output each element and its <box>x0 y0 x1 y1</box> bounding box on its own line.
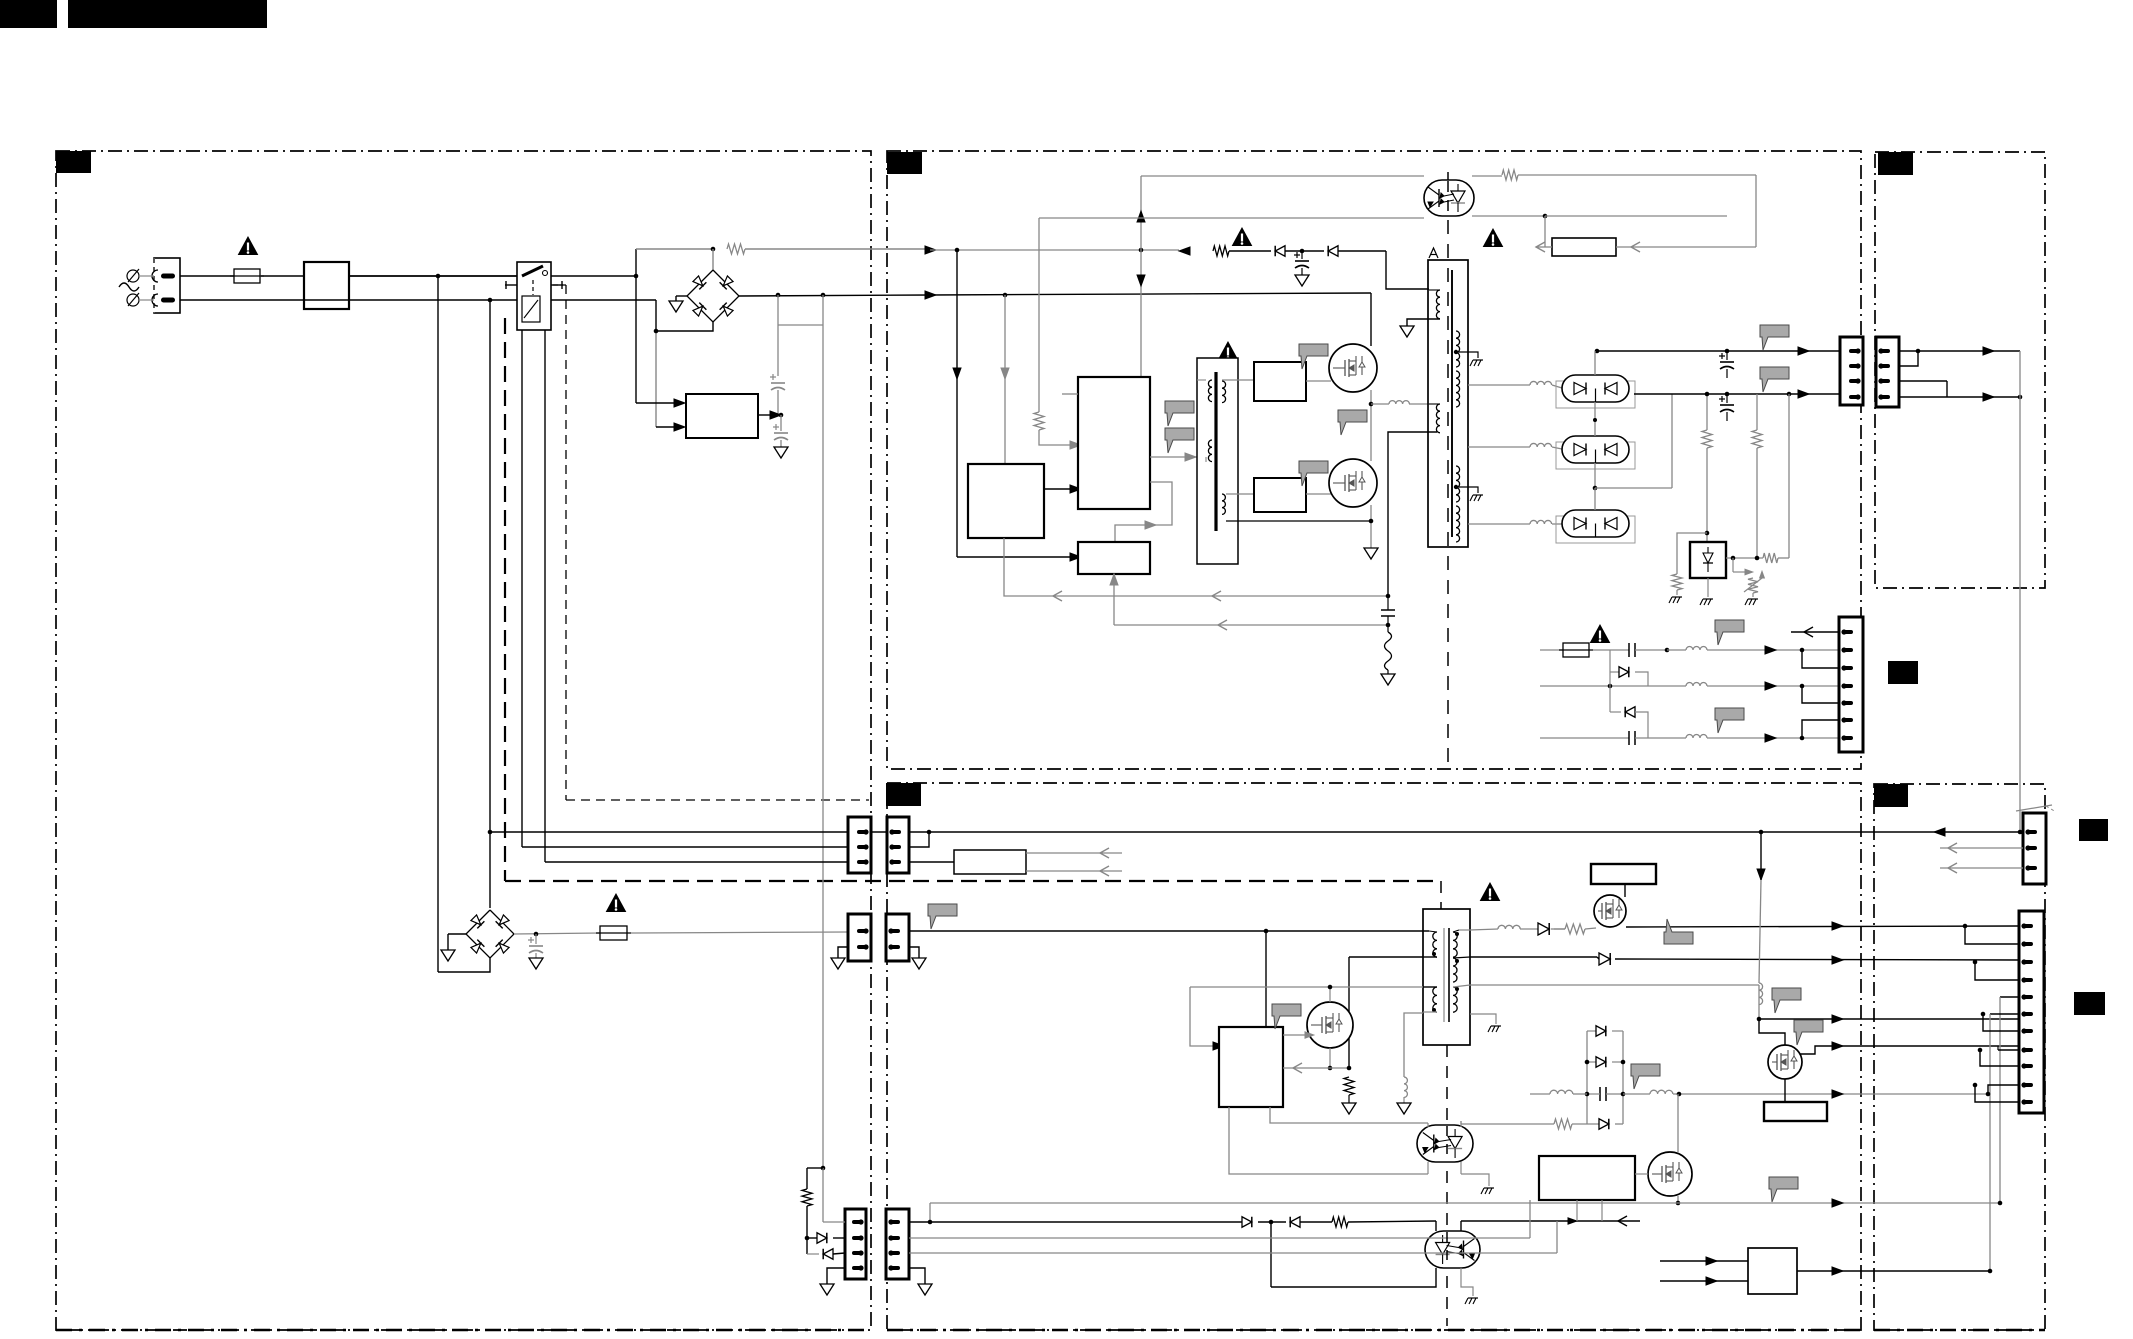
wire C out 1 <box>1899 350 2020 352</box>
junction AC N to BR2 feed <box>488 298 493 303</box>
wire label box out 2 <box>1026 870 1122 872</box>
junction D505/D506 <box>1269 1220 1274 1225</box>
diode D207 <box>1610 711 1621 713</box>
warning triangle fuse F102 <box>607 894 626 912</box>
capacitor C502 <box>1599 1087 1601 1101</box>
diode D105 <box>807 1237 817 1239</box>
inductor L501 <box>1498 925 1520 929</box>
wire C out 2 <box>1899 380 1947 382</box>
driver module IC205 <box>1254 478 1306 512</box>
main transformer T201 <box>1428 260 1468 547</box>
junction D206 <box>1608 684 1613 689</box>
connector CN601 (B out) <box>1839 617 1863 752</box>
wire gray return y625 <box>1114 624 1390 626</box>
wire AC line L <box>180 275 234 277</box>
wire gray return y597 <box>1004 538 1388 596</box>
wire main +B rail <box>1530 1093 1550 1095</box>
wire standby AC rail down to D section <box>822 325 824 1168</box>
junction aux out <box>1757 1017 1762 1022</box>
capacitor C204 <box>1726 394 1728 403</box>
resistor R207 <box>1756 394 1758 430</box>
wire p10 from +B <box>1988 1085 2019 1094</box>
white box soft-start <box>1552 238 1616 256</box>
wire CN501 pin3 to label box <box>909 861 954 863</box>
wire to T1 primary top <box>1386 251 1429 289</box>
wire T2 secondary 2 <box>1453 957 1470 958</box>
flag Q1 <box>1299 344 1328 369</box>
connector label CN602 <box>1888 661 1918 684</box>
snubber branch <box>1388 432 1437 596</box>
section border: output header block C <box>1875 152 2045 588</box>
page title block <box>0 0 57 28</box>
fuse F102 <box>600 926 627 940</box>
wire PC501 collector out <box>1460 1121 1462 1124</box>
isolation dash overlay PC501 <box>1446 1126 1448 1161</box>
section border: standby converter block D <box>887 783 1861 1330</box>
wire PC501 pins <box>1427 1123 1429 1127</box>
wire IC sense <box>1283 1067 1349 1069</box>
wire DC bus into B <box>925 291 936 299</box>
diode D502 <box>1572 1123 1599 1125</box>
P-channel FET Q502 <box>1594 895 1626 927</box>
resistor R101 inrush <box>727 244 745 254</box>
junction relay out <box>634 274 639 279</box>
wire +B2 rail y1203 <box>930 1202 2000 1204</box>
MOSFET Q201 <box>1306 380 1331 382</box>
inductor L502 <box>1759 983 1763 1005</box>
wire IC501 fb1 <box>1270 1107 1428 1123</box>
wire C rail down to E <box>2019 351 2021 832</box>
junction DC bus x1005 <box>1003 293 1008 298</box>
wire to soft start box <box>1544 216 1546 247</box>
wire aux out to CN <box>1759 1018 2019 1020</box>
capacitor C205 <box>1628 643 1630 657</box>
wire y1203 jog to CN503 <box>929 1203 931 1222</box>
wire Q503 to label <box>1784 1079 1786 1102</box>
page heading bar <box>68 0 267 28</box>
optocoupler PC501 <box>1417 1125 1473 1162</box>
junction snubber y625 <box>1386 623 1391 628</box>
wire PC502 emitter <box>1461 1268 1473 1296</box>
ground Q2 <box>1364 548 1378 559</box>
wire aux down x1759 <box>1758 985 1760 1019</box>
connector CN503 (D side lower) <box>886 1209 909 1279</box>
junction snubber y596 <box>1386 594 1391 599</box>
connector CN106 (A side mid) <box>848 914 871 961</box>
white label box Q502 <box>1591 864 1656 884</box>
bridge rectifier BR1 <box>687 270 739 322</box>
wire bias rail y176 <box>1141 175 1424 177</box>
timing IC203 <box>1078 542 1150 574</box>
section label C <box>1878 152 1913 175</box>
arrow -B2 <box>1765 682 1776 690</box>
wire secondary 1 <box>1468 384 1530 386</box>
junction aux supply out <box>779 413 784 418</box>
white label box Q503 <box>1764 1102 1827 1121</box>
wire label box out 1 <box>1026 852 1122 854</box>
wire aux to IC vcc <box>1190 987 1215 1046</box>
relay RY101 <box>517 262 551 330</box>
connector CN304 (E main) <box>2019 911 2044 1113</box>
ground snubber <box>1387 670 1389 674</box>
connector CN303 (E top) <box>2023 813 2046 884</box>
wire IC drive Q5 <box>1283 1034 1307 1036</box>
connector CN202 (B top out) <box>1840 337 1863 405</box>
junction VCC feed <box>1264 929 1269 934</box>
output rectifier cluster <box>1586 1031 1588 1124</box>
wire -B rail 2 <box>1540 685 1686 687</box>
wire PC502 collector <box>1460 1221 1462 1231</box>
wire -B rail 3 <box>1540 737 1629 739</box>
wire soft-start right arrow <box>1616 246 1756 248</box>
flag PWM out1 <box>1165 401 1194 426</box>
wire drive to Q1 driver <box>1222 379 1254 381</box>
wire aux input 1 <box>636 402 674 404</box>
wire Q5 drain <box>1329 987 1331 1002</box>
wire BR2 DC out <box>514 933 600 934</box>
inductor L203 <box>1686 683 1707 686</box>
PWM controller IC202 <box>1078 377 1150 509</box>
wire soft-start left arrow <box>1536 246 1552 248</box>
ground stub CN502 <box>909 947 919 958</box>
ground stub CN503 <box>909 1268 925 1284</box>
diode D206 <box>1610 671 1619 673</box>
diode D202 <box>1328 246 1338 257</box>
ground IC206 <box>1707 578 1709 597</box>
optocoupler PC201 <box>1424 180 1474 216</box>
wire PC501 emitter gnd <box>1461 1174 1489 1186</box>
flag standby in <box>928 904 957 929</box>
wire PC201 cathode <box>1472 215 1545 217</box>
shunt regulator IC206 <box>1690 542 1726 578</box>
page bottom border emphasis <box>56 1329 871 1332</box>
dual diode D204 <box>1556 442 1635 469</box>
wire snubber bus <box>1179 247 1190 255</box>
resistor R208 <box>1677 533 1707 574</box>
diode D501 <box>1538 923 1549 935</box>
capacitor C201 <box>1301 251 1303 259</box>
line filter LF101 <box>304 262 349 309</box>
sub regulator IC502 <box>1539 1156 1635 1200</box>
fuse F201 <box>1563 643 1589 657</box>
section label E <box>1874 784 1908 807</box>
wire LED return y218 <box>1039 217 1424 219</box>
warning triangle drive transformer <box>1219 342 1238 360</box>
isolation barrier dashed box (hot area) <box>504 318 506 881</box>
wire diode pack commons <box>1594 402 1596 436</box>
flag PWM out2 <box>1165 428 1194 453</box>
wire p5 riser <box>2000 996 2019 998</box>
junction +B M4 <box>1677 1092 1682 1097</box>
wire PC502 return <box>1271 1268 1436 1287</box>
section label D <box>886 783 921 806</box>
wire CN303 pin2 stub <box>1940 847 2023 849</box>
wire +5V rail <box>1634 393 1840 395</box>
resistor R204 <box>1034 412 1044 430</box>
flag aux <box>1772 988 1801 1013</box>
wire jog p3-p4 <box>1975 962 2019 980</box>
connector CN502 (D side mid) <box>886 914 909 961</box>
standby regulator IC501 <box>1219 1027 1283 1107</box>
resistor R206 <box>1706 394 1708 430</box>
wire Q503 gate out <box>1800 1046 2019 1054</box>
wire drive to Q2 driver <box>1226 493 1254 495</box>
section label A <box>56 151 91 173</box>
wire AC line N <box>180 299 656 301</box>
junction standby AC tap <box>821 1166 826 1171</box>
connector label CN604 <box>2074 992 2105 1015</box>
wire cap feed down <box>777 295 779 325</box>
junction y832 x1759 <box>1759 830 1764 835</box>
wire CN303 pin3 stub <box>1940 867 2023 869</box>
capacitor C202 <box>1381 609 1395 611</box>
flag Q2 <box>1299 461 1328 486</box>
wire IC503 in2 <box>1660 1280 1748 1282</box>
wire standby rail y931 <box>909 930 1429 932</box>
inductor damper <box>1404 1077 1407 1097</box>
diode D106 <box>823 1249 833 1260</box>
junction PFC bus x957 <box>955 248 960 253</box>
diode D506 <box>1290 1217 1300 1228</box>
wire Q504 source <box>1677 1196 1679 1203</box>
inductor L201 <box>1371 403 1389 405</box>
wire IC206 cathode <box>1726 557 1763 559</box>
wire to PC502 anode <box>1435 1221 1437 1231</box>
wire bus to bridge BR1 <box>636 248 713 250</box>
wire IC502 pins <box>1576 1200 1578 1221</box>
wire BR1 bottom return <box>656 322 713 331</box>
wire jog p8-p9 <box>1980 1050 2019 1066</box>
wire IC501 fb2 <box>1229 1107 1428 1174</box>
wire Q504 drain <box>1677 1094 1679 1152</box>
flag +B2 <box>1769 1177 1798 1202</box>
wire T2 secondary 3 <box>1453 985 1470 987</box>
wire relay coil drive 2 <box>544 330 546 862</box>
wire standby bridge BR2 feed <box>438 971 439 973</box>
wire AC tap to connector <box>488 830 493 835</box>
wire jog p10-p11 <box>1975 1085 2019 1102</box>
ground stub CN107 <box>827 1268 845 1284</box>
wire PC201 out <box>1472 175 1502 177</box>
isolation dash overlay PC502 <box>1446 1232 1448 1267</box>
isolation barrier dashed line through T2 <box>1440 881 1442 909</box>
AC source tilde <box>119 283 139 291</box>
auxiliary power module PS101 <box>686 394 758 438</box>
wire aux output <box>758 414 770 416</box>
T1 secondary tap 2 <box>1454 485 1458 489</box>
section label B <box>887 152 922 174</box>
connector CN501 (D side upper) <box>887 817 909 873</box>
resistor R501 <box>1344 1077 1354 1095</box>
wire feedback divider x1039 <box>1038 218 1040 412</box>
flag +5V <box>1760 367 1789 392</box>
inductor L202 <box>1686 647 1707 651</box>
standby transformer T501 <box>1423 909 1470 1045</box>
section border: output header block E <box>1874 784 2045 1330</box>
warning triangle -B rail <box>1591 625 1610 643</box>
wire label to Q502 <box>1624 884 1626 897</box>
section border: main SMPS block B <box>887 151 1861 769</box>
wire jog p6-p7 <box>1983 1014 2019 1031</box>
MOSFET Q503 <box>1768 1045 1802 1079</box>
wire to source node <box>1348 957 1350 1068</box>
bridge rectifier BR2 <box>466 910 514 958</box>
AC live terminal symbol <box>127 270 139 282</box>
wire inrush feed vertical <box>635 249 637 403</box>
arrow -B1 <box>1765 646 1776 654</box>
junction AC L to BR2 feed <box>436 274 441 279</box>
capacitor C203 <box>1726 351 1728 360</box>
wire CN601 pin1 stub <box>1791 631 1840 633</box>
warning triangle T2 <box>1481 883 1500 901</box>
fuse F101 <box>234 269 260 283</box>
capacitor C206 <box>1628 731 1630 745</box>
wire standby DC to connector <box>631 932 848 933</box>
wire bias vertical x1141 <box>1140 176 1142 377</box>
wire secondary 3 <box>1468 523 1530 525</box>
wire AC N corner down <box>655 300 657 331</box>
wire T2 aux bottom <box>1423 1011 1437 1013</box>
wire aux to Q503 <box>1759 1019 1785 1046</box>
wire secondary 2 <box>1468 446 1530 448</box>
AC inlet connector CN101 <box>154 258 180 313</box>
flag Q5 <box>1272 1004 1301 1029</box>
wire DC bus to Q1 drain <box>1370 293 1372 346</box>
wire to VCC IC <box>957 556 1076 558</box>
wire remote line y832 <box>1934 828 1945 836</box>
driver module IC204 <box>1254 362 1306 401</box>
junction CN pin2/3 <box>1800 648 1805 653</box>
wire IC503 out <box>1797 1270 1990 1272</box>
ground T1 primary coil <box>1407 319 1440 326</box>
isolation barrier dashed line through T1 <box>1447 172 1449 762</box>
warning triangle R201 <box>1233 228 1252 246</box>
diode D504 <box>1587 1061 1596 1063</box>
flag -B3 <box>1715 708 1744 733</box>
power-good block IC503 <box>1748 1248 1797 1294</box>
wire PFC to PWM <box>1044 488 1076 490</box>
connector CN105 (A side upper) <box>848 817 871 873</box>
ground aux <box>774 447 788 458</box>
arrow -B3 <box>1765 734 1776 742</box>
diode D201 <box>1275 246 1285 257</box>
arrow sense right <box>1568 1218 1577 1224</box>
wire IC503 in1 <box>1660 1260 1748 1262</box>
flag 3.3V <box>1664 919 1693 944</box>
MOSFET Q504 <box>1648 1152 1692 1196</box>
trimmer VR201 <box>1748 578 1758 593</box>
MOSFET Q202 <box>1306 493 1331 495</box>
arrow +5V <box>1798 390 1809 398</box>
warning triangle T1 <box>1484 229 1503 247</box>
resistor R209 <box>1763 553 1778 563</box>
resistor R105 <box>807 1167 823 1169</box>
capacitor C103 smoothing <box>771 382 785 384</box>
PFC controller IC201 <box>968 464 1044 538</box>
wire jog CN501 pins <box>927 830 932 835</box>
slash mark CN303 <box>2016 805 2052 811</box>
junction -B1 <box>1665 648 1670 653</box>
wire PFC block feed <box>1004 295 1006 464</box>
wire T2 return to chassis <box>1470 1014 1496 1024</box>
flag +B <box>1631 1064 1660 1089</box>
wire current sense down <box>956 250 958 557</box>
wire IC203 sense input <box>1113 574 1115 625</box>
ground stub CN106 <box>838 947 848 958</box>
section border: primary AC/input block A <box>56 151 871 1330</box>
wire diode rail y957 <box>1597 957 1599 959</box>
resistor R202 <box>1385 632 1392 670</box>
wire T2 primary bottom <box>1423 956 1437 958</box>
flag +12V <box>1760 325 1789 350</box>
junction snubber cap <box>1300 249 1305 254</box>
wire CN503 pin3 <box>909 1252 1557 1254</box>
ground bridge BR2 <box>448 933 466 935</box>
wire T2 secondary 1 <box>1459 929 1470 931</box>
T1 secondary tap 1 <box>1454 350 1458 354</box>
optocoupler PC502 <box>1425 1231 1480 1268</box>
arrow out2 <box>1832 956 1843 964</box>
dual diode D205 <box>1556 516 1635 543</box>
ground bridge BR1 <box>676 295 687 297</box>
wire -B rail 1 <box>1540 649 1563 651</box>
wire Q5 source <box>1329 1048 1331 1068</box>
wire Q502 out <box>1626 926 2019 927</box>
wire CN503 pin2 <box>909 1237 1530 1239</box>
wire BR1 DC output <box>739 295 930 296</box>
wire p6 riser <box>1990 1013 2019 1015</box>
wire +12V rail <box>1595 349 1600 354</box>
resistor R502 <box>1554 1119 1572 1129</box>
resistor R205 <box>1502 170 1518 180</box>
flag half-bridge <box>1338 410 1367 435</box>
wire BR2 bottom loop <box>439 958 490 972</box>
diode D503 <box>1587 1030 1596 1032</box>
wire jog p1-p2 <box>1965 926 2019 944</box>
resistor R503 P-FET <box>1551 928 1565 930</box>
connector label CN603 <box>2079 819 2108 841</box>
resistor R504 <box>1332 1217 1348 1227</box>
AC neutral terminal symbol <box>127 294 139 306</box>
connector CN301 (C side) <box>1876 337 1899 407</box>
junction R105 diode node <box>805 1236 810 1241</box>
wire relay coil drive 1 <box>521 330 523 847</box>
flag -B1 <box>1715 620 1744 645</box>
wire PWM drive 1 <box>1150 456 1206 458</box>
wire CN503 pin1 bus <box>909 1221 1242 1223</box>
flag Q503 gate <box>1794 1020 1823 1045</box>
wire half-bridge node <box>1370 390 1372 461</box>
gate drive transformer T202 <box>1197 358 1238 564</box>
wire PWM drive 2 <box>1115 482 1172 542</box>
inductor L204 <box>1686 735 1707 739</box>
wire T2 aux top <box>1423 986 1437 988</box>
wire relay output to node <box>551 275 636 277</box>
warning triangle fuse F101 <box>239 237 258 255</box>
wire standby AC to CN107 pin1 <box>822 1168 824 1222</box>
letter A marker <box>1429 248 1438 258</box>
arrow out1 <box>1832 922 1843 930</box>
isolation dash overlay PC201 <box>1447 181 1449 215</box>
white label box relay drive <box>954 850 1026 874</box>
dual diode D203 <box>1556 381 1635 408</box>
wire down to ramp box <box>1755 175 1757 247</box>
wire aux input 2 <box>656 426 674 428</box>
wire Q2 source <box>1370 505 1372 548</box>
arrow +B out <box>1832 1090 1843 1098</box>
junction CN pin4/5 <box>1800 684 1805 689</box>
wire IC502 gate <box>1635 1173 1648 1175</box>
